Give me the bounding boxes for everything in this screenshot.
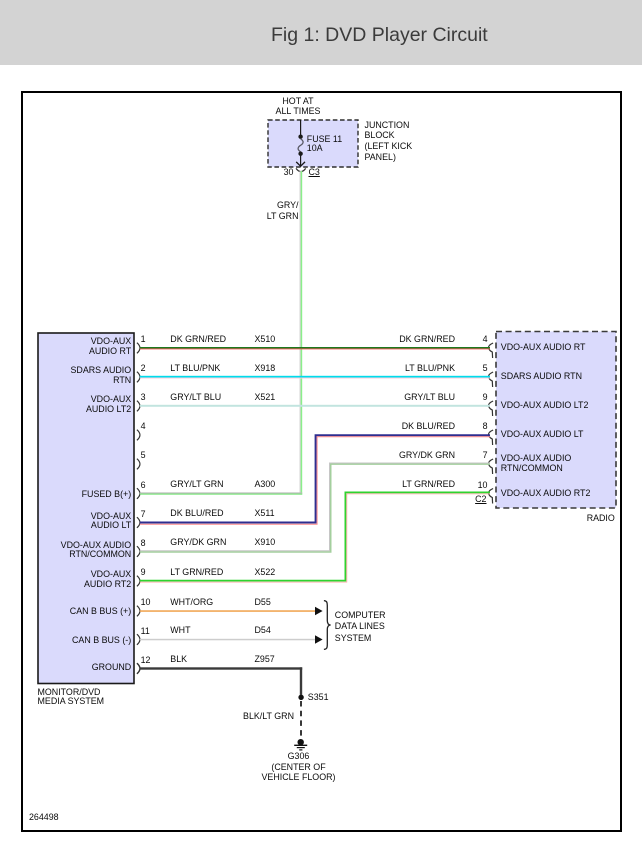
connector pin 7 (radio) — [489, 459, 494, 474]
node label HOT AT ALL TIMES — [238, 96, 358, 117]
ground G306 label — [239, 751, 359, 783]
wire label DK GRN/RED right — [355, 335, 455, 345]
wire DK GRN/RED pin1 to radio pin4 — [140, 347, 490, 349]
wire label BLK — [170, 655, 187, 665]
title Fig 1: DVD Player Circuit — [271, 24, 488, 46]
wire LT BLU/PNK pin2 to radio pin5 — [140, 376, 490, 379]
label MONITOR/DVD MEDIA SYSTEM — [38, 688, 105, 707]
wire label GRY/LT GRN vertical — [239, 200, 299, 221]
connector pin 10 (monitor) — [137, 606, 140, 617]
connector pin 1 (monitor) — [137, 343, 140, 354]
circuit A300 — [255, 480, 276, 490]
label monitor pin11 CAN B BUS (-) — [40, 636, 131, 646]
diagram number 264498 — [29, 813, 59, 823]
circuit X910 — [255, 538, 276, 548]
radio box (dashed) — [496, 332, 616, 509]
wire label LT GRN/RED left — [170, 568, 223, 578]
wire label GRY/DK GRN left — [170, 538, 226, 548]
circuit X918 — [255, 364, 276, 374]
connector pin 7 (monitor) — [137, 517, 140, 528]
pin number 9 — [141, 568, 146, 578]
circuit X510 — [255, 335, 276, 345]
pin number 4 — [141, 422, 146, 432]
wire WHT pin11 CAN B bus - — [140, 639, 315, 641]
pin number 8 — [141, 539, 146, 549]
brace computer data lines — [324, 601, 331, 650]
label radio pin7 VDO-AUX AUDIO RTN/COMMON — [501, 454, 572, 474]
circuit X521 — [255, 393, 276, 403]
circuit X522 — [255, 568, 276, 578]
pin number 1 — [141, 335, 146, 345]
wire label LT BLU/PNK left — [170, 364, 220, 374]
wire BLK/LT GRN dashed to ground — [300, 701, 302, 737]
connector pin 5 (monitor) — [137, 459, 140, 470]
connector pin 6 (monitor) — [137, 488, 140, 499]
connector pin 2 (monitor) — [137, 372, 140, 383]
wire label DK BLU/RED right — [355, 422, 455, 432]
pin number 5 — [141, 451, 146, 461]
wire GRY/DK GRN pin8 to radio pin7 — [140, 463, 490, 552]
connector pin 3 (monitor) — [137, 401, 140, 412]
splice S351 label — [308, 693, 329, 703]
connector pin 4 (radio) — [489, 343, 494, 358]
label monitor pin9 VDO-AUX AUDIO RT2 — [40, 570, 131, 590]
fuse F11 feed line from hot — [300, 120, 302, 135]
fuse output arrow — [296, 156, 305, 167]
pin number 12 — [141, 656, 151, 666]
wire label GRY/LT BLU left — [170, 393, 221, 403]
label radio pin8 VDO-AUX AUDIO LT — [501, 430, 584, 440]
connector pin 9 (monitor) — [137, 576, 140, 587]
connector pin 11 (monitor) — [137, 634, 140, 645]
wire label LT BLU/PNK right — [355, 364, 455, 374]
connector pin 9 (radio) — [489, 401, 494, 416]
label radio pin5 SDARS AUDIO RTN — [501, 372, 582, 382]
pin number 10 — [141, 598, 151, 608]
label monitor pin1 VDO-AUX AUDIO RT — [40, 337, 131, 357]
connector pin 10 (radio) — [489, 489, 494, 504]
radio pin number 9 — [457, 393, 488, 403]
radio pin number 5 — [457, 364, 488, 374]
ground G306 symbol — [294, 739, 307, 750]
connector pin 5 (radio) — [489, 372, 494, 387]
label FUSE 11 10A — [307, 135, 342, 152]
wire LT GRN/RED pin9 to radio pin10 — [140, 492, 490, 582]
radio pin number 7 — [457, 451, 488, 461]
wire BLK pin12 ground — [140, 667, 302, 695]
wire label GRY/LT GRN left — [170, 480, 223, 490]
wire label WHT/ORG — [170, 598, 213, 608]
wire label DK GRN/RED left — [170, 335, 226, 345]
wire label LT GRN/RED right — [355, 480, 455, 490]
radio pin number 10 — [457, 481, 488, 491]
circuit Z957 — [255, 655, 275, 665]
wire DK BLU/RED pin7 to radio pin8 — [140, 435, 490, 524]
pin number 11 — [141, 627, 150, 637]
wire GRY/LT GRN pin6 to splice — [140, 492, 302, 494]
connector pin 8 (monitor) — [137, 546, 140, 557]
label radio pin10 VDO-AUX AUDIO RT2 — [501, 489, 591, 499]
label monitor pin2 SDARS AUDIO RTN — [40, 366, 131, 386]
wire label DK BLU/RED left — [170, 509, 223, 519]
radio pin number 8 — [457, 422, 488, 432]
label junction block — [365, 120, 413, 163]
arrow CAN B bus + — [315, 607, 323, 615]
wire label BLK/LT GRN — [194, 712, 294, 722]
wire WHT/ORG pin10 CAN B bus + — [140, 610, 315, 612]
wire GRY/LT BLU pin3 to radio pin9 — [140, 405, 490, 407]
connector C3 arc — [296, 168, 306, 171]
pin 30 label — [264, 168, 294, 178]
label RADIO — [515, 514, 615, 524]
circuit D55 — [255, 598, 271, 608]
pin number 2 — [141, 364, 146, 374]
connector pin 8 (radio) — [489, 430, 494, 445]
label monitor pin3 VDO-AUX AUDIO LT2 — [40, 395, 131, 415]
pin number 6 — [141, 481, 146, 491]
label monitor pin6 FUSED B(+) — [40, 490, 131, 500]
connector C2 label — [456, 495, 487, 505]
junction block (dashed box) — [268, 120, 358, 167]
wire label WHT — [170, 626, 190, 636]
monitor/DVD media system box — [38, 333, 134, 684]
header band — [0, 0, 642, 65]
pin number 3 — [141, 393, 146, 403]
wire label GRY/DK GRN right — [355, 451, 455, 461]
pin number 7 — [141, 510, 146, 520]
label radio pin4 VDO-AUX AUDIO RT — [501, 343, 586, 353]
circuit D54 — [255, 626, 271, 636]
label monitor pin8 VDO-AUX AUDIO RTN/COMMON — [40, 541, 131, 561]
label monitor pin7 VDO-AUX AUDIO LT — [40, 512, 131, 532]
radio pin number 4 — [457, 335, 488, 345]
label monitor pin10 CAN B BUS (+) — [40, 607, 131, 617]
label computer data lines system — [335, 610, 386, 646]
wire GRY/LT GRN vertical from fuse to splice row — [300, 171, 303, 495]
label radio pin9 VDO-AUX AUDIO LT2 — [501, 401, 589, 411]
wire label GRY/LT BLU right — [355, 393, 455, 403]
circuit X511 — [255, 509, 275, 519]
fuse F11 symbol — [298, 135, 303, 156]
connector pin 12 (monitor) — [137, 663, 140, 674]
connector C3 label — [309, 168, 320, 178]
label monitor pin12 GROUND — [40, 663, 131, 673]
arrow CAN B bus - — [315, 635, 323, 643]
splice S351 — [298, 695, 303, 700]
connector pin 4 (monitor) — [137, 430, 140, 441]
